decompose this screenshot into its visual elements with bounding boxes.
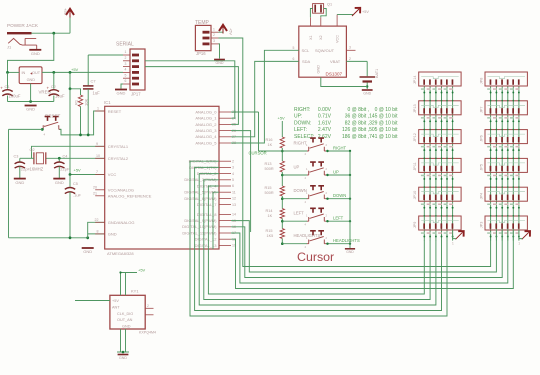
ground at jack (29, 49, 41, 51)
wire jack to +5V node (32, 32, 71, 34)
resistor R13 500R (281, 148, 283, 161)
IC left unconnected pin stubs (95, 189, 105, 191)
battery BAT1 (366, 61, 368, 76)
svg-text:6: 6 (232, 184, 234, 188)
svg-text:DIGITAL_11(PWM): DIGITAL_11(PWM) (182, 230, 217, 235)
svg-text:13: 13 (232, 203, 236, 207)
connector JP14 box (419, 72, 461, 86)
svg-text:SQW/OUT: SQW/OUT (315, 48, 335, 53)
svg-text:ANALOG_2: ANALOG_2 (195, 122, 217, 127)
wire temp pin3 to gnd (219, 44, 220, 59)
node C1 top (6, 71, 9, 74)
JP16 pins (203, 31, 210, 34)
wire analog0 to cursor riser (231, 111, 259, 113)
connector JP8 internal pin row wire (488, 77, 526, 79)
svg-text:11: 11 (232, 190, 236, 194)
connector JP5 pins (490, 166, 492, 171)
svg-text:22pF: 22pF (60, 167, 70, 172)
node C5 bottom (69, 236, 72, 239)
bus line D3 (204, 180, 430, 300)
svg-text:GND: GND (363, 92, 371, 96)
bus line D5 stub (213, 192, 219, 249)
connector JP9 pins (423, 223, 425, 228)
svg-text:OUT_AN: OUT_AN (117, 318, 133, 322)
KY1 right stubs (145, 307, 153, 309)
node C4 top (58, 157, 61, 160)
wire temp pin1 to +5V arrow (219, 31, 224, 34)
junction dots below JP10 (423, 207, 425, 209)
wire SDA to analog4 (231, 61, 299, 136)
svg-text:8: 8 (97, 229, 99, 233)
svg-text:2: 2 (213, 33, 215, 37)
svg-text:100uF: 100uF (9, 94, 21, 99)
svg-text:JP13: JP13 (413, 104, 417, 113)
DS1307 gnd pin wire (321, 77, 367, 86)
svg-text:GND/ANALOG: GND/ANALOG (108, 220, 135, 225)
svg-text:2: 2 (147, 304, 149, 308)
svg-text:5: 5 (232, 178, 234, 182)
connector JP8 pins (490, 79, 492, 84)
svg-text:JP7: JP7 (480, 106, 484, 113)
pin6 wire to arrow (519, 230, 522, 239)
svg-text:21: 21 (93, 191, 97, 195)
connector JP12 box (419, 130, 461, 144)
node regulator gnd (29, 100, 32, 103)
svg-text:5: 5 (125, 73, 127, 77)
bus line D2 (199, 174, 436, 305)
svg-text:KXPQ4M4: KXPQ4M4 (139, 331, 156, 335)
svg-text:2.47V: 2.47V (318, 127, 332, 133)
svg-text:VCC: VCC (108, 172, 117, 177)
wires X1 X2 to crystal (310, 9, 312, 18)
wire serial pin6 to gnd (121, 84, 123, 89)
resistor R15b 1K5 (281, 219, 283, 229)
svg-text:ATMEGA8/328: ATMEGA8/328 (107, 251, 134, 256)
KY1 module box (110, 295, 145, 329)
DS1307 SQW stub (346, 49, 355, 51)
node R1 bottom (79, 134, 82, 137)
IC3 DS1307 box (299, 26, 347, 77)
connector JP3 internal pin row wire (488, 221, 526, 223)
svg-text:1: 1 (125, 50, 127, 54)
voltage regulator IC2 box (19, 67, 42, 84)
wire gnd riser to IC gnd pins (88, 222, 105, 238)
svg-text:22pF: 22pF (21, 167, 31, 172)
column vertical wires (490, 86, 492, 241)
svg-text:RIGHT:: RIGHT: (294, 107, 310, 113)
node R1 top feed (69, 87, 72, 90)
svg-text:500R: 500R (265, 167, 274, 171)
crystal Q1 (314, 5, 316, 13)
svg-text:4: 4 (125, 68, 127, 72)
wire crystal left to C3 (20, 157, 34, 159)
+5V symbol power (69, 10, 71, 18)
connector JP11 pins (423, 166, 425, 171)
svg-text:145 @ 10 bit: 145 @ 10 bit (369, 114, 398, 120)
svg-text:5: 5 (293, 46, 295, 50)
svg-text:Q1: Q1 (327, 3, 332, 7)
bus line D0 (190, 161, 447, 316)
wire serial pin1 to C7 (88, 54, 123, 56)
pin entry dots at JP3 (490, 215, 492, 217)
svg-text:RIGHT: RIGHT (333, 146, 346, 151)
junction dots below JP3 (490, 236, 492, 238)
svg-text:9: 9 (96, 142, 98, 146)
wire regulator gnd down (30, 84, 32, 102)
wire reset net to IC pin1 (60, 111, 105, 135)
svg-text:GND: GND (31, 51, 40, 56)
wire SCL to analog5 (231, 50, 299, 143)
svg-text:20: 20 (93, 185, 97, 189)
node C7 bottom (87, 134, 90, 137)
svg-text:ANT: ANT (112, 306, 120, 310)
svg-text:DOWN: DOWN (333, 193, 346, 198)
gnd bus wire (9, 237, 88, 239)
svg-text:SDA: SDA (302, 59, 311, 64)
svg-text:741 @ 10 bit: 741 @ 10 bit (369, 134, 398, 140)
svg-text:IC1: IC1 (104, 100, 111, 105)
svg-text:1K5: 1K5 (267, 234, 274, 238)
svg-text:CRYSTAL2: CRYSTAL2 (108, 156, 129, 161)
connector JP5 box (485, 158, 527, 172)
svg-text:JP17: JP17 (131, 92, 141, 97)
svg-text:0 @ 8bit ,: 0 @ 8bit , (348, 107, 369, 113)
column vertical wires (423, 86, 425, 241)
svg-text:ANALOG_5: ANALOG_5 (195, 140, 217, 145)
svg-text:X2: X2 (319, 35, 323, 40)
svg-text:82 @ 8bit ,: 82 @ 8bit , (345, 120, 369, 126)
svg-text:3: 3 (349, 46, 351, 50)
svg-text:HEADLIGHTS: HEADLIGHTS (333, 238, 360, 243)
+5V arrow bottom of column (522, 232, 529, 239)
pin entry dots at JP7 (490, 100, 492, 102)
pin entry dots at JP9 (424, 215, 426, 217)
svg-text:GND: GND (119, 356, 127, 360)
wire reset button left to left rail (9, 128, 43, 130)
reset button S1 (45, 117, 59, 121)
svg-text:500R: 500R (265, 191, 274, 195)
svg-text:R1: R1 (74, 99, 79, 105)
svg-text:1.61V: 1.61V (318, 120, 332, 126)
svg-text:R13: R13 (265, 162, 272, 166)
wire analog3 drop (231, 131, 251, 232)
svg-text:ANALOG_0: ANALOG_0 (195, 109, 217, 114)
svg-text:+5V: +5V (229, 28, 233, 35)
ladder node dots (281, 150, 284, 153)
svg-text:C2: C2 (51, 84, 57, 89)
svg-text:+5V: +5V (278, 116, 286, 121)
buttons common gnd vertical (349, 151, 351, 248)
svg-text:DOWN:: DOWN: (294, 120, 311, 126)
connector JP4 pins (490, 195, 492, 200)
svg-text:0.00V: 0.00V (318, 107, 332, 113)
connector JP14 internal pin row wire (421, 77, 459, 79)
svg-text:GND: GND (83, 249, 92, 254)
capacitor C4 22pF (58, 158, 60, 161)
svg-text:+5V: +5V (362, 10, 369, 14)
svg-text:10uF: 10uF (55, 94, 65, 99)
ground below C3 (14, 178, 26, 180)
bus line D1 (195, 167, 442, 310)
svg-text:1: 1 (518, 242, 520, 246)
svg-text:36 @ 8bit ,: 36 @ 8bit , (345, 114, 369, 120)
junction dots below JP4 (490, 207, 492, 209)
wire crystal1 net to IC pin9 (32, 146, 105, 158)
svg-text:GND: GND (346, 250, 354, 254)
svg-text:2: 2 (349, 57, 351, 61)
svg-text:JP4: JP4 (480, 193, 484, 200)
svg-text:GND: GND (27, 78, 36, 82)
svg-text:1: 1 (452, 242, 454, 246)
svg-text:Cursor: Cursor (297, 250, 334, 264)
connector JP7 pins (490, 108, 492, 113)
ground below IC (82, 247, 94, 249)
pin entry dots at JP10 (424, 186, 426, 188)
svg-text:7: 7 (96, 170, 98, 174)
wire to KY1 ANT (75, 300, 110, 302)
svg-text:RESET: RESET (108, 109, 122, 114)
svg-text:SCL: SCL (302, 48, 311, 53)
pin entry dots at JP11 (424, 157, 426, 159)
connector JP4 box (485, 187, 527, 201)
connector JP4 internal pin row wire (488, 192, 526, 194)
svg-text:6: 6 (293, 57, 295, 61)
connector JP13 internal pin row wire (421, 105, 459, 107)
connector JP6 box (485, 130, 527, 144)
svg-text:3: 3 (125, 62, 127, 66)
connector JP13 box (419, 101, 461, 115)
junction dots below JP12 (423, 149, 425, 151)
svg-text:BAT1: BAT1 (375, 69, 379, 78)
svg-text:GND: GND (216, 61, 224, 65)
connector JP10 pins (423, 195, 425, 200)
bus line to JP3 (231, 227, 502, 278)
svg-text:C5: C5 (73, 182, 78, 186)
svg-text:JP9: JP9 (413, 222, 417, 229)
svg-text:ANALOG_4: ANALOG_4 (195, 134, 217, 139)
JP17 pins (132, 54, 139, 57)
svg-text:DIGITAL_8: DIGITAL_8 (197, 212, 217, 217)
svg-text:1K: 1K (268, 214, 273, 218)
connector JP8 box (485, 72, 527, 86)
svg-text:+5V: +5V (138, 268, 146, 273)
svg-text:JP11: JP11 (413, 162, 417, 170)
ground below JP17 (115, 89, 127, 91)
+5V arrow bottom of column (456, 232, 463, 239)
connector JP12 internal pin row wire (421, 134, 459, 136)
connector JP6 pins (490, 137, 492, 142)
svg-text:DOWN: DOWN (294, 188, 307, 193)
svg-text:14: 14 (232, 213, 236, 217)
bus line to JP3 (231, 229, 513, 288)
svg-text:POWER JACK: POWER JACK (7, 23, 39, 28)
pin entry dots at JP12 (424, 129, 426, 131)
svg-text:VCC: VCC (336, 35, 340, 43)
IC1 ATMEGA box (105, 106, 219, 249)
resistor R1 10K (78, 95, 82, 107)
svg-text:JP5: JP5 (480, 164, 484, 171)
IC right pin stubs and numbers (219, 111, 231, 113)
wire serial line2 to analog1 (145, 61, 235, 118)
svg-text:.1uF: .1uF (73, 193, 82, 198)
svg-text:R14: R14 (266, 209, 273, 213)
svg-text:Q2: Q2 (30, 148, 35, 152)
ground below battery (362, 89, 373, 91)
svg-text:JP8: JP8 (480, 78, 484, 85)
pin entry dots at JP4 (490, 186, 492, 188)
svg-text:LEFT:: LEFT: (294, 127, 307, 133)
wire KY1 +5V feeds (121, 273, 138, 296)
wire crystal2 net to IC pin10 (46, 157, 105, 159)
wire VCC to +5V (337, 14, 353, 16)
node gnd riser (86, 236, 89, 239)
svg-text:+5V: +5V (74, 168, 82, 173)
svg-text:DIGITAL_13: DIGITAL_13 (195, 243, 218, 248)
junction dots below JP8 (490, 92, 492, 94)
svg-text:UP: UP (333, 170, 339, 175)
connector JP16 box (195, 25, 211, 50)
svg-text:ANALOG_REFERENCE: ANALOG_REFERENCE (108, 194, 152, 199)
wire up to +5V arrow (69, 16, 71, 33)
connector JP13 pins (423, 108, 425, 113)
ground below C4 (53, 178, 65, 180)
connector JP14 pins (423, 79, 425, 84)
svg-text:6: 6 (125, 79, 127, 83)
wire temp pin2 to right column bus (219, 38, 491, 267)
node jack/+5V (52, 32, 55, 35)
KY1 gnd wires (120, 329, 122, 352)
pin entry dots at JP5 (490, 157, 492, 159)
pin6 wire to arrow (453, 230, 456, 239)
capacitor C7 1uF (87, 55, 89, 85)
svg-text:ANALOG_3: ANALOG_3 (195, 128, 217, 133)
svg-text:JP12: JP12 (413, 133, 417, 142)
wire +5V down to R1 (70, 72, 81, 95)
connector JP5 internal pin row wire (488, 163, 526, 165)
wire jack down-jog to regulator input (8, 33, 54, 72)
bus line to JP3 (231, 229, 508, 283)
svg-text:1uF: 1uF (93, 91, 101, 96)
capacitor C3 22pF (19, 158, 21, 161)
wire serial line3 to analog2 (145, 67, 238, 125)
left rail vertical to gnd bus (8, 129, 10, 237)
svg-text:GND: GND (317, 65, 321, 74)
svg-text:KY1: KY1 (131, 289, 139, 294)
svg-text:0.71V: 0.71V (318, 114, 332, 120)
power jack connector X1 thick bar (7, 32, 32, 34)
junction dots below JP14 (423, 92, 425, 94)
svg-text:X1: X1 (309, 35, 313, 40)
svg-text:505 @ 10 bit: 505 @ 10 bit (369, 127, 398, 133)
svg-text:GND: GND (55, 180, 64, 185)
svg-text:+5V: +5V (63, 8, 68, 16)
svg-text:JP10: JP10 (413, 191, 417, 200)
svg-text:+5V: +5V (112, 299, 119, 303)
svg-text:JP16: JP16 (196, 51, 206, 56)
connector JP10 internal pin row wire (421, 192, 459, 194)
svg-text:C1: C1 (5, 84, 11, 89)
svg-text:GND: GND (15, 180, 24, 185)
svg-text:C7: C7 (91, 79, 97, 84)
connector JP6 internal pin row wire (488, 134, 526, 136)
svg-text:1: 1 (97, 107, 99, 111)
connector JP3 pins (490, 223, 492, 228)
node battery gnd (366, 85, 368, 87)
svg-text:+: + (0, 86, 3, 91)
capacitor C2 10uF (53, 72, 55, 88)
bus line D4 (208, 186, 424, 294)
svg-text:UP: UP (294, 165, 300, 170)
pin entry dots at JP6 (490, 129, 492, 131)
svg-text:CRYSTAL1: CRYSTAL1 (108, 144, 129, 149)
wire regulator input rail (8, 71, 20, 73)
node C2 top (52, 71, 55, 74)
junction dots below JP7 (490, 120, 492, 122)
svg-text:VBAT: VBAT (330, 59, 341, 64)
svg-text:DIGITAL_12: DIGITAL_12 (195, 237, 218, 242)
svg-text:GND: GND (122, 325, 131, 329)
svg-text:2: 2 (125, 56, 127, 60)
svg-text:R15: R15 (266, 229, 273, 233)
svg-text:3: 3 (232, 166, 234, 170)
svg-text:16MHZ: 16MHZ (30, 167, 44, 172)
connector JP12 pins (423, 137, 425, 142)
ground below KY1 (118, 354, 129, 356)
node VCC/C5 (69, 173, 72, 176)
jack symbol J1 outline (8, 38, 37, 49)
svg-text:R15: R15 (265, 186, 272, 190)
svg-text:2: 2 (232, 159, 234, 163)
svg-text:10: 10 (96, 154, 100, 158)
svg-text:JP14: JP14 (413, 76, 417, 85)
svg-text:4: 4 (232, 172, 234, 176)
svg-text:C3: C3 (14, 155, 19, 159)
svg-text:LEFT: LEFT (333, 216, 344, 221)
svg-text:GND: GND (108, 232, 117, 237)
svg-text:UP:: UP: (294, 114, 302, 120)
crystal Q2 16MHz (33, 152, 35, 164)
ground below temp (214, 59, 225, 61)
node +5V vertical (69, 71, 72, 74)
svg-text:+: + (47, 86, 50, 91)
connector JP3 box (485, 216, 527, 230)
svg-text:SERIAL: SERIAL (116, 42, 134, 48)
svg-text:0 @ 10 bit: 0 @ 10 bit (375, 107, 398, 113)
+5V arrow at DS1307 (352, 9, 359, 16)
junction dots below JP5 (490, 178, 492, 180)
DS1307 top pin stubs (309, 17, 311, 26)
svg-text:ANALOG_1: ANALOG_1 (195, 116, 217, 121)
svg-text:3: 3 (213, 39, 215, 43)
svg-text:12: 12 (232, 197, 236, 201)
svg-text:329 @ 10 bit: 329 @ 10 bit (369, 120, 398, 126)
resistor R14 1K (281, 196, 283, 209)
svg-text:1K: 1K (268, 143, 273, 147)
svg-text:DIGITAL_5(PWM): DIGITAL_5(PWM) (184, 190, 217, 195)
pin entry dots at JP13 (424, 100, 426, 102)
connector JP11 internal pin row wire (421, 163, 459, 165)
ground below buttons (345, 248, 355, 250)
capacitor C5 .1uF (69, 175, 71, 187)
svg-text:GND: GND (117, 91, 126, 96)
IC left pin stubs (95, 110, 105, 112)
svg-text:126 @ 8bit ,: 126 @ 8bit , (342, 127, 369, 133)
+5V arrow at temp (222, 26, 224, 34)
wire C1 to gnd junction (8, 101, 54, 103)
svg-text:OUT: OUT (32, 71, 41, 75)
svg-text:CLK_DIO: CLK_DIO (117, 312, 133, 316)
resistor R16 1K (280, 137, 284, 148)
